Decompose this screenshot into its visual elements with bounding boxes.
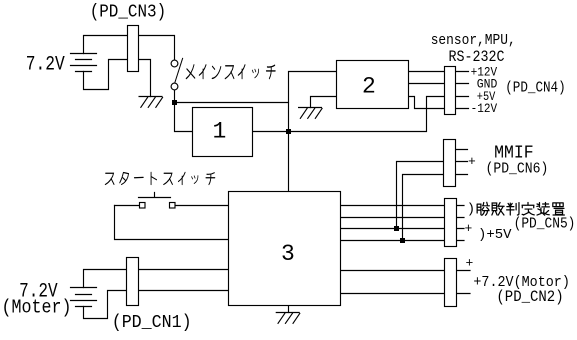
svg-text:1: 1	[212, 119, 226, 145]
svg-text:(Moter): (Moter)	[2, 297, 72, 319]
svg-text:(PD_CN6): (PD_CN6)	[486, 161, 549, 178]
svg-text:+: +	[466, 256, 474, 271]
svg-text:): )	[467, 202, 475, 218]
svg-text:)+5V: )+5V	[478, 227, 512, 243]
svg-text:(PD_CN5): (PD_CN5)	[514, 215, 576, 232]
svg-text:3: 3	[281, 241, 295, 267]
svg-text:(PD_CN2): (PD_CN2)	[496, 288, 563, 306]
svg-text:(PD_CN4): (PD_CN4)	[505, 80, 566, 97]
svg-text:-12V: -12V	[471, 101, 498, 116]
svg-text:sensor,MPU,: sensor,MPU,	[431, 32, 516, 49]
svg-text:RS-232C: RS-232C	[449, 48, 505, 66]
svg-text:2: 2	[362, 74, 376, 100]
svg-text:+: +	[468, 154, 476, 169]
svg-text:(PD_CN3): (PD_CN3)	[90, 3, 167, 23]
svg-text:7.2V: 7.2V	[26, 53, 65, 76]
svg-text:+: +	[465, 221, 473, 236]
svg-text:(PD_CN1): (PD_CN1)	[112, 313, 192, 333]
